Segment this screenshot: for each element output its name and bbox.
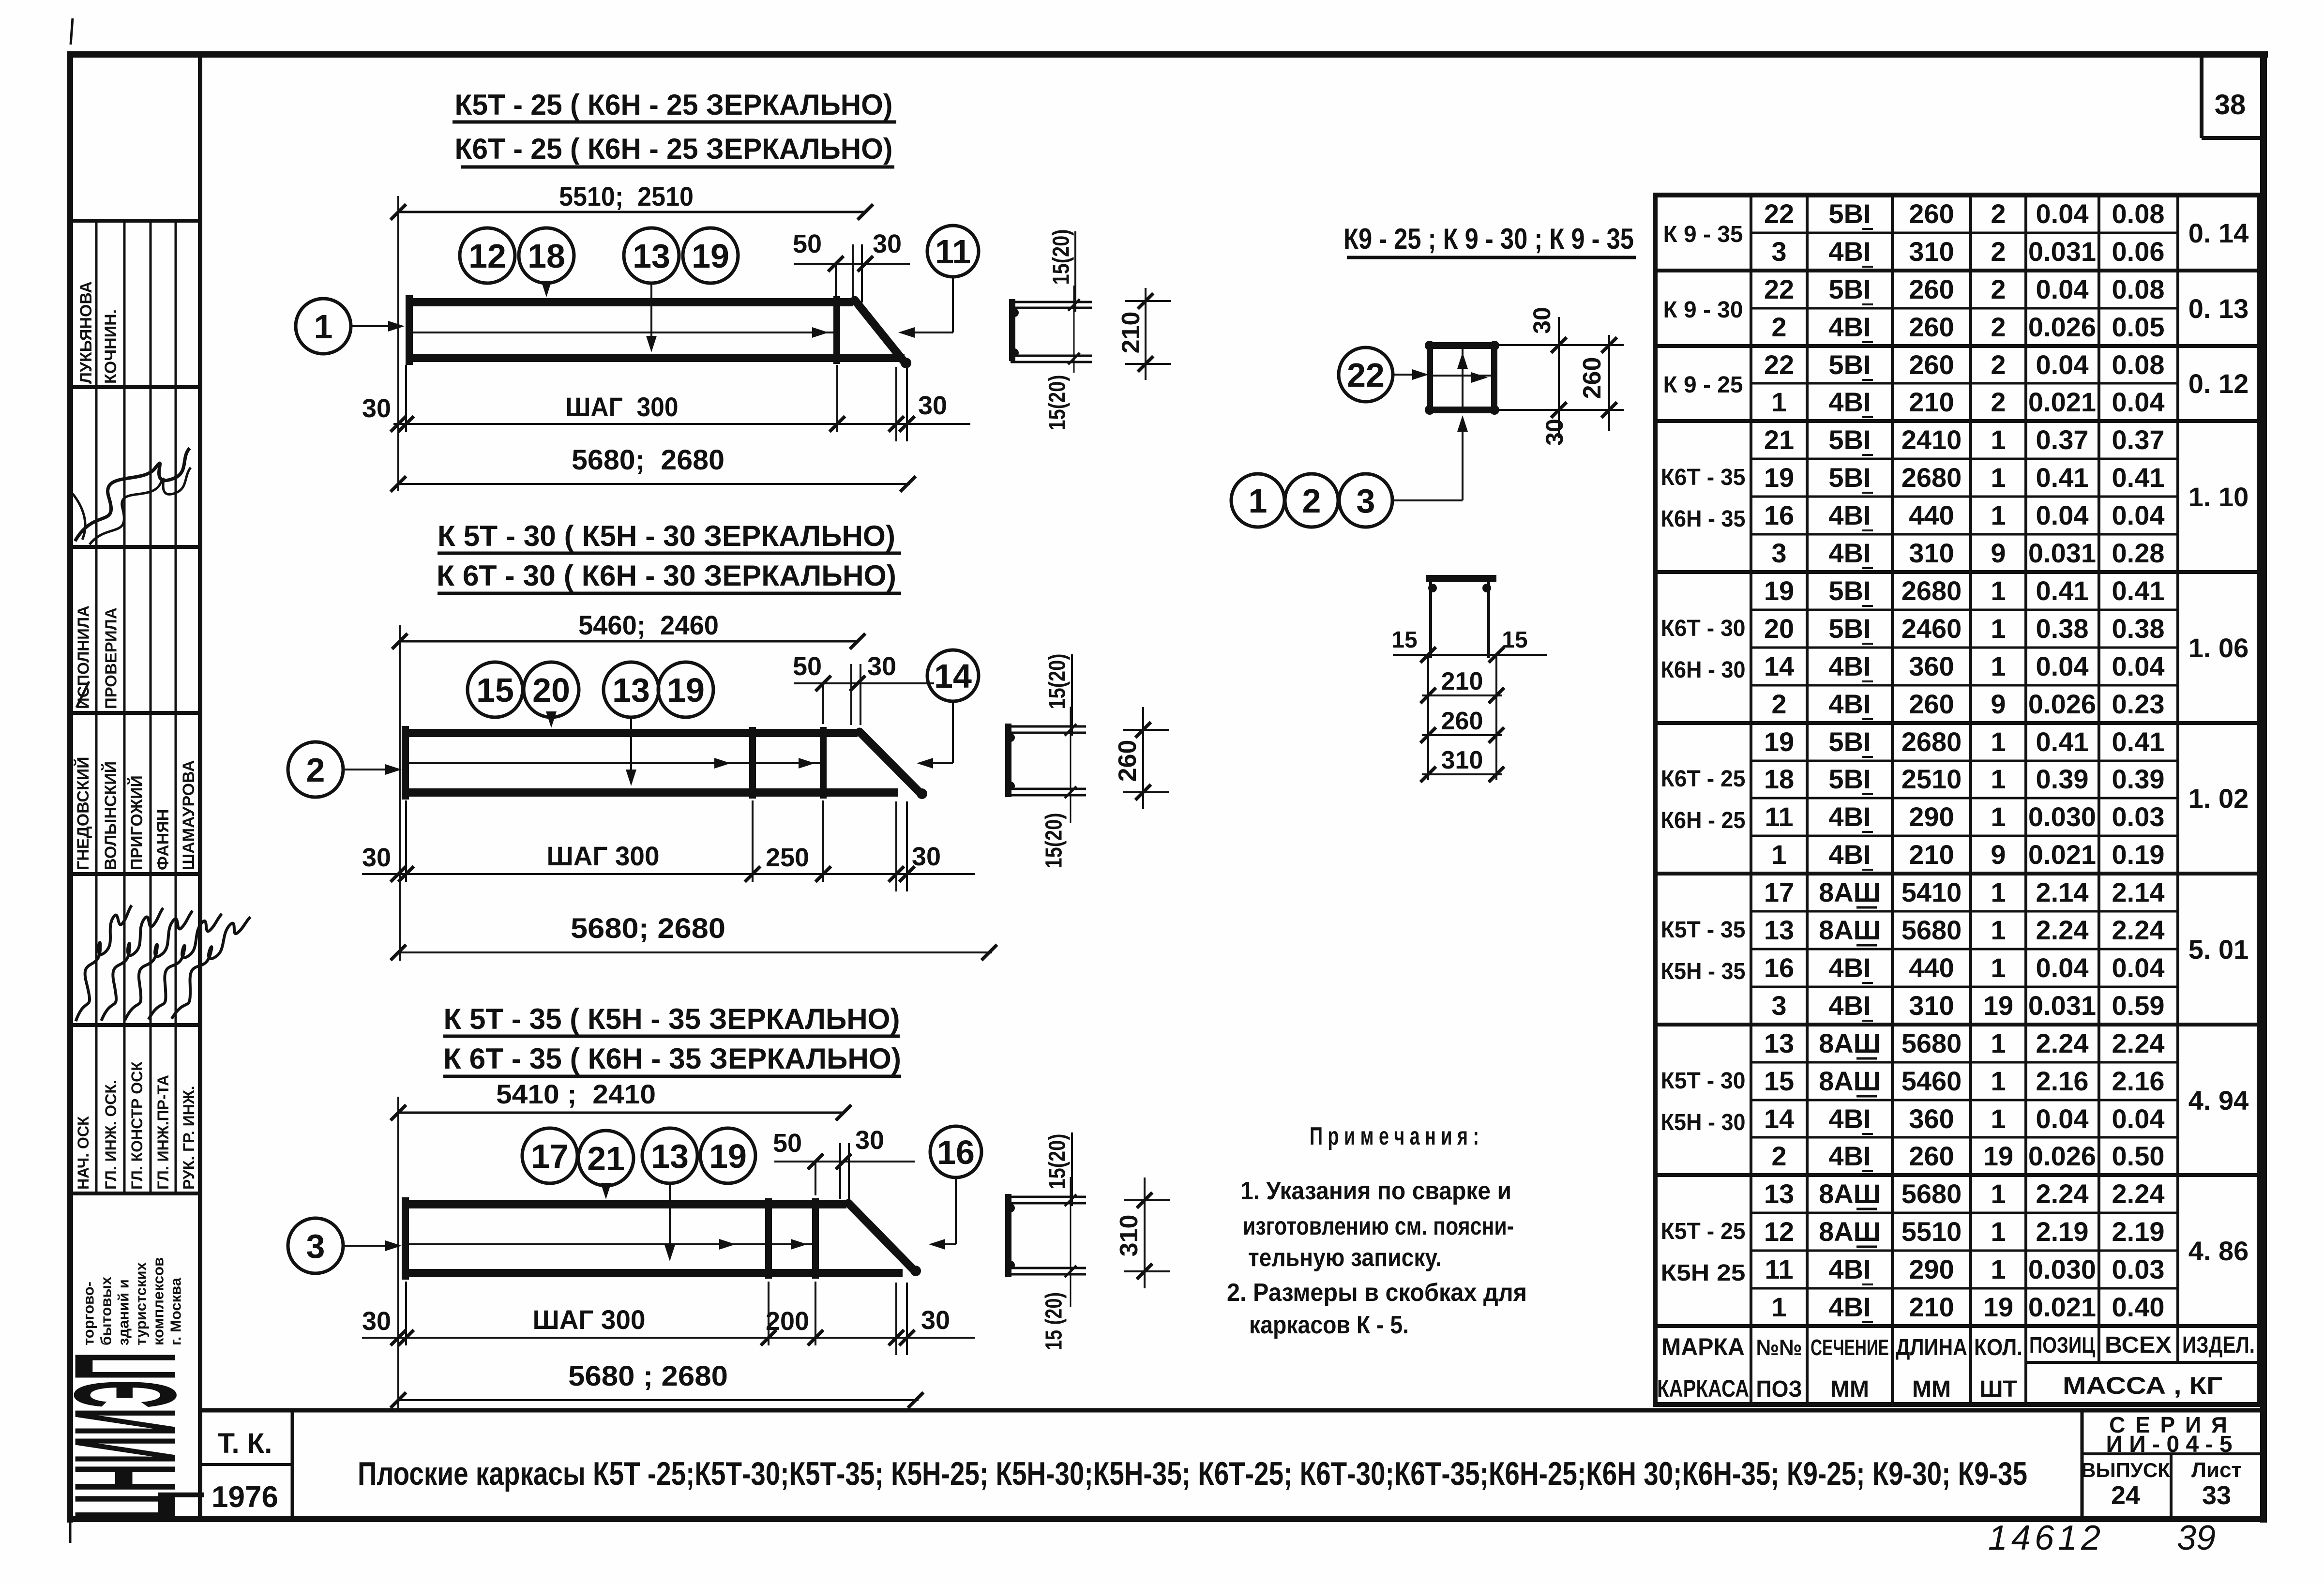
extension line left schematic 3	[397, 1097, 399, 1408]
cross-section 2 bottom bars	[1006, 782, 1086, 795]
svg-text:4ВI: 4ВI	[1828, 1254, 1871, 1284]
svg-text:1. 02: 1. 02	[2188, 783, 2249, 814]
position circle 20	[524, 662, 579, 717]
svg-text:3: 3	[1771, 538, 1786, 568]
position circle 22	[1339, 347, 1393, 402]
svg-text:5ВI: 5ВI	[1828, 462, 1871, 493]
svg-text:0.04: 0.04	[2112, 651, 2165, 681]
svg-text:1: 1	[1991, 462, 2006, 493]
svg-text:1: 1	[314, 308, 333, 346]
svg-text:4ВI: 4ВI	[1828, 387, 1871, 417]
svg-text:21: 21	[587, 1140, 625, 1177]
svg-text:5510; 2510: 5510; 2510	[559, 181, 694, 211]
svg-text:0.06: 0.06	[2112, 236, 2165, 267]
K9 height dimension 260	[1578, 335, 1617, 431]
svg-text:ФАНЯН: ФАНЯН	[154, 809, 172, 870]
svg-text:ПОЗ: ПОЗ	[1756, 1376, 1802, 1402]
svg-text:0.38: 0.38	[2112, 613, 2165, 644]
svg-text:ШАГ 300: ШАГ 300	[566, 392, 679, 422]
cross-section 1 bottom bars	[1010, 348, 1092, 362]
svg-text:8АШ: 8АШ	[1819, 1028, 1881, 1058]
svg-text:ЛУКЬЯНОВА: ЛУКЬЯНОВА	[77, 281, 95, 384]
svg-text:4ВI: 4ВI	[1828, 689, 1871, 719]
svg-text:15(20): 15(20)	[1045, 654, 1071, 709]
dimension 5460; 2460	[392, 610, 865, 649]
svg-text:1. 10: 1. 10	[2188, 482, 2249, 512]
svg-text:13: 13	[1764, 1178, 1794, 1209]
svg-text:2: 2	[1991, 236, 2006, 267]
svg-text:30: 30	[1541, 419, 1568, 446]
svg-text:16: 16	[1764, 952, 1794, 983]
svg-text:0.28: 0.28	[2112, 538, 2165, 568]
svg-text:5460; 2460: 5460; 2460	[578, 610, 719, 640]
svg-text:1: 1	[1771, 1292, 1786, 1322]
svg-text:5680: 5680	[1901, 1028, 1962, 1058]
svg-text:15: 15	[1502, 627, 1527, 653]
svg-text:МАССА , КГ: МАССА , КГ	[2063, 1372, 2222, 1399]
K9 square cage top bar	[1427, 342, 1497, 349]
svg-text:0.031: 0.031	[2028, 236, 2096, 267]
svg-text:0.41: 0.41	[2112, 462, 2165, 493]
svg-text:2.19: 2.19	[2036, 1216, 2089, 1247]
svg-text:тельную записку.: тельную записку.	[1248, 1244, 1442, 1272]
svg-text:5ВI: 5ВI	[1828, 349, 1871, 380]
svg-text:2. Размеры в скобках для: 2. Размеры в скобках для	[1227, 1279, 1527, 1307]
cage K5T-35 bottom chord bar	[403, 1269, 903, 1277]
svg-text:2.24: 2.24	[2112, 1178, 2165, 1209]
svg-text:5460: 5460	[1901, 1066, 1962, 1096]
table block К6Т - 30 / К6Н - 30	[1661, 575, 2249, 719]
svg-text:4ВI: 4ВI	[1828, 538, 1871, 568]
svg-text:12: 12	[468, 237, 506, 275]
svg-text:2: 2	[1991, 198, 2006, 229]
svg-text:0.030: 0.030	[2028, 801, 2096, 832]
svg-text:ИСПОЛНИЛА: ИСПОЛНИЛА	[75, 605, 92, 709]
svg-text:30: 30	[362, 394, 391, 423]
table block К5Т - 35 / К5Н - 35	[1661, 877, 2249, 1021]
svg-text:1: 1	[1991, 877, 2006, 907]
cage K5T-35 middle rod wire	[409, 1239, 812, 1250]
svg-text:0.03: 0.03	[2112, 801, 2165, 832]
cage K5T-25 right vertical bar	[833, 296, 840, 364]
svg-text:4ВI: 4ВI	[1828, 801, 1871, 832]
position circle 1	[296, 299, 351, 354]
svg-text:0.026: 0.026	[2028, 689, 2096, 719]
svg-text:ЦНИИЭП: ЦНИИЭП	[44, 1352, 206, 1521]
leader wire circle 13 (schem 2)	[626, 717, 636, 786]
T.K. box	[198, 1410, 292, 1520]
position circle 13	[624, 228, 679, 283]
svg-text:1: 1	[1771, 387, 1786, 417]
svg-text:0.37: 0.37	[2112, 424, 2165, 455]
svg-text:0. 14: 0. 14	[2188, 218, 2249, 248]
svg-text:260: 260	[1909, 689, 1954, 719]
svg-text:1: 1	[1991, 424, 2006, 455]
position circle 12	[460, 228, 515, 283]
table block К5Т - 30 / К5Н - 30	[1661, 1028, 2249, 1171]
svg-text:ИЗДЕЛ.: ИЗДЕЛ.	[2182, 1332, 2255, 1358]
svg-text:14: 14	[1764, 1103, 1794, 1134]
svg-text:2680: 2680	[1901, 462, 1962, 493]
svg-text:4ВI: 4ВI	[1828, 1141, 1871, 1171]
svg-text:30: 30	[921, 1306, 950, 1335]
svg-text:5. 01: 5. 01	[2188, 934, 2249, 965]
svg-text:К5Т - 25: К5Т - 25	[1661, 1219, 1746, 1244]
cage K5T-30 intermediate bar	[749, 727, 756, 799]
leader wire circle 13	[646, 283, 657, 352]
svg-text:1: 1	[1991, 1103, 2006, 1134]
schematic K5T-35 title line 2	[443, 1042, 901, 1076]
svg-text:2: 2	[1991, 349, 2006, 380]
svg-text:0.39: 0.39	[2036, 764, 2089, 794]
svg-text:8АШ: 8АШ	[1819, 915, 1881, 945]
svg-text:19: 19	[1983, 1141, 2013, 1171]
svg-text:4ВI: 4ВI	[1828, 651, 1871, 681]
svg-text:2680: 2680	[1901, 575, 1962, 606]
svg-text:22: 22	[1347, 356, 1385, 394]
svg-text:0. 12: 0. 12	[2188, 368, 2249, 399]
svg-text:К6Т - 30: К6Т - 30	[1661, 616, 1746, 641]
svg-text:0.04: 0.04	[2112, 952, 2165, 983]
cage K5T-35 left end bar	[402, 1197, 409, 1280]
leader wire from circle 11	[898, 277, 953, 338]
svg-text:200: 200	[766, 1307, 809, 1336]
svg-text:1: 1	[1991, 915, 2006, 945]
svg-text:5ВI: 5ВI	[1828, 575, 1871, 606]
leader wire circle 20	[546, 711, 557, 728]
svg-text:310: 310	[1909, 236, 1954, 267]
position circle 3	[288, 1218, 343, 1273]
svg-text:К 9 - 30: К 9 - 30	[1663, 297, 1743, 323]
sidebar institute text block	[80, 1257, 184, 1345]
svg-text:2.24: 2.24	[2112, 1028, 2165, 1058]
svg-text:0.04: 0.04	[2112, 1103, 2165, 1134]
svg-text:5510: 5510	[1901, 1216, 1962, 1247]
svg-text:0.40: 0.40	[2112, 1292, 2165, 1322]
position circle 14	[927, 650, 979, 701]
cage K5T-30 middle rod wire	[409, 758, 820, 769]
svg-text:290: 290	[1909, 1254, 1954, 1284]
svg-text:каркасов К - 5.: каркасов К - 5.	[1249, 1311, 1409, 1339]
svg-text:П р и м е ч а н и я :: П р и м е ч а н и я :	[1310, 1122, 1479, 1150]
dimension 5680; 2680 schem 2	[391, 913, 997, 960]
leader wire circle 13 (schem 3)	[664, 1183, 675, 1261]
svg-text:260: 260	[1909, 274, 1954, 304]
svg-text:торгово-: торгово-	[80, 1282, 97, 1345]
position circle 21	[578, 1131, 634, 1186]
svg-text:К6Т - 25 ( К6Н - 25 ЗЕРКАЛЬНО): К6Т - 25 ( К6Н - 25 ЗЕРКАЛЬНО)	[455, 133, 893, 165]
position circle 1 (K9)	[1231, 474, 1284, 527]
svg-text:4ВI: 4ВI	[1828, 500, 1871, 530]
svg-text:0.41: 0.41	[2036, 726, 2089, 757]
svg-text:38: 38	[2215, 89, 2246, 121]
svg-text:3: 3	[1771, 236, 1786, 267]
schematic K5T-35 title line 1	[443, 1003, 900, 1036]
svg-text:К6Н - 30: К6Н - 30	[1661, 657, 1746, 683]
svg-text:4. 86: 4. 86	[2188, 1236, 2249, 1266]
svg-text:К 5Т - 30 ( К5Н - 30 ЗЕРКАЛЬНО: К 5Т - 30 ( К5Н - 30 ЗЕРКАЛЬНО)	[438, 520, 895, 552]
position circle 17	[522, 1128, 577, 1183]
cage K5T-30 diagonal bar	[860, 732, 927, 799]
svg-text:2.19: 2.19	[2112, 1216, 2165, 1247]
cage K5T-25 middle rod wire	[412, 327, 833, 338]
K9 square inner wires	[1433, 345, 1492, 410]
svg-text:0.38: 0.38	[2036, 613, 2089, 644]
svg-text:0.08: 0.08	[2112, 198, 2165, 229]
schematic K5T-30 title line 2	[437, 559, 901, 593]
svg-text:2.24: 2.24	[2036, 1178, 2089, 1209]
svg-text:5680; 2680: 5680; 2680	[572, 444, 724, 476]
svg-text:15(20): 15(20)	[1041, 813, 1067, 869]
svg-text:11: 11	[1765, 1254, 1793, 1284]
cross-section 3 height dimension 310	[1115, 1177, 1170, 1288]
svg-text:0.59: 0.59	[2112, 990, 2165, 1021]
svg-text:КОЧНИН.: КОЧНИН.	[102, 309, 120, 384]
svg-text:2: 2	[1771, 1141, 1786, 1171]
svg-text:2.16: 2.16	[2036, 1066, 2089, 1096]
svg-text:К6Т - 25: К6Т - 25	[1661, 766, 1746, 792]
dimension 5410; 2410	[391, 1079, 851, 1120]
svg-text:зданий и: зданий и	[115, 1279, 132, 1345]
svg-text:13: 13	[633, 237, 670, 275]
leader wire from circle 16	[929, 1177, 956, 1250]
svg-text:К 6Т - 35 ( К6Н - 35 ЗЕРКАЛЬНО: К 6Т - 35 ( К6Н - 35 ЗЕРКАЛЬНО)	[443, 1042, 901, 1075]
svg-text:1: 1	[1771, 839, 1786, 870]
svg-text:ВОЛЫНСКИЙ: ВОЛЫНСКИЙ	[101, 761, 120, 870]
svg-text:0.50: 0.50	[2112, 1141, 2165, 1171]
svg-text:0.04: 0.04	[2036, 1103, 2089, 1134]
svg-text:0.04: 0.04	[2036, 349, 2089, 380]
svg-text:8АШ: 8АШ	[1819, 1178, 1881, 1209]
svg-text:ПРОВЕРИЛА: ПРОВЕРИЛА	[102, 607, 120, 709]
leader wire from circle 22	[1393, 369, 1429, 380]
K9 square cage left bar	[1427, 342, 1433, 413]
svg-text:К5Н - 35: К5Н - 35	[1661, 959, 1746, 984]
sidebar signature block 2	[64, 906, 251, 1026]
table block К6Т - 25 / К6Н - 25	[1661, 726, 2249, 870]
table header СЕЧЕНИЕ ММ	[1811, 1335, 1889, 1402]
svg-text:К 6Т - 30 ( К6Н - 30 ЗЕРКАЛЬНО: К 6Т - 30 ( К6Н - 30 ЗЕРКАЛЬНО)	[437, 559, 896, 592]
svg-text:20: 20	[532, 671, 570, 709]
svg-text:комплексов: комплексов	[150, 1257, 167, 1345]
leader wire circle 18	[541, 281, 552, 297]
svg-text:1: 1	[1991, 1066, 2006, 1096]
svg-text:3: 3	[1357, 482, 1375, 520]
svg-text:0.021: 0.021	[2028, 1292, 2096, 1322]
table header ДЛИНА ММ	[1896, 1335, 1967, 1402]
svg-text:К5Т - 30: К5Т - 30	[1661, 1068, 1746, 1094]
svg-text:1: 1	[1991, 1028, 2006, 1058]
dimension 50 / 30 top right	[793, 229, 910, 302]
svg-text:19: 19	[1983, 990, 2013, 1021]
position circle 19 (schem 2)	[658, 662, 713, 717]
position circle 19 (schem 3)	[700, 1128, 755, 1183]
svg-text:1: 1	[1991, 500, 2006, 530]
svg-text:К5Т - 35: К5Т - 35	[1661, 917, 1746, 943]
svg-text:310: 310	[1909, 990, 1954, 1021]
svg-text:260: 260	[1441, 707, 1483, 735]
svg-text:ГЛ. ИНЖ. ОСК.: ГЛ. ИНЖ. ОСК.	[102, 1080, 120, 1190]
svg-text:Лист: Лист	[2191, 1458, 2242, 1482]
svg-text:8АШ: 8АШ	[1819, 1066, 1881, 1096]
schematic K5T-30 title line 1	[438, 520, 901, 553]
extension line left schematic 2	[399, 625, 401, 961]
K9 square corner nodes	[1425, 341, 1499, 415]
svg-text:ШАГ 300: ШАГ 300	[547, 841, 660, 871]
svg-text:9: 9	[1991, 689, 2006, 719]
cross-section 3 cover 15(20) top	[1045, 1132, 1072, 1206]
cage K5T-25 top chord bar	[406, 298, 853, 306]
svg-text:5ВI: 5ВI	[1828, 274, 1871, 304]
svg-text:ШАГ 300: ШАГ 300	[533, 1304, 646, 1335]
sidebar signature block 1	[73, 448, 191, 544]
svg-text:0.021: 0.021	[2028, 839, 2096, 870]
svg-text:К5Н 25: К5Н 25	[1661, 1260, 1746, 1286]
svg-text:2: 2	[1771, 312, 1786, 342]
dimension 5510; 2510	[391, 181, 873, 220]
table block К6Т - 35 / К6Н - 35	[1661, 424, 2249, 568]
svg-text:4ВI: 4ВI	[1828, 236, 1871, 267]
leader wire from circle 1	[351, 321, 405, 332]
svg-text:5680: 5680	[1901, 1178, 1962, 1209]
svg-text:260: 260	[1909, 198, 1954, 229]
svg-text:21: 21	[1764, 424, 1794, 455]
svg-text:0.026: 0.026	[2028, 1141, 2096, 1171]
svg-text:5ВI: 5ВI	[1828, 424, 1871, 455]
svg-text:19: 19	[1764, 462, 1794, 493]
svg-text:ШАМАУРОВА: ШАМАУРОВА	[180, 760, 198, 870]
svg-text:260: 260	[1909, 1141, 1954, 1171]
svg-text:9: 9	[1991, 839, 2006, 870]
table block К 9 - 35	[1663, 198, 2249, 267]
svg-text:К6Н - 35: К6Н - 35	[1661, 506, 1746, 532]
dimension ШАГ 300 row	[362, 365, 970, 441]
svg-text:ВСЕХ: ВСЕХ	[2105, 1332, 2172, 1358]
cross-section 2 axis wire	[1065, 707, 1076, 823]
leader wire circle 21	[601, 1183, 611, 1199]
svg-text:Т. К.: Т. К.	[218, 1428, 272, 1459]
svg-text:2510: 2510	[1901, 764, 1962, 794]
svg-text:КОЛ.: КОЛ.	[1974, 1335, 2022, 1360]
svg-text:1. 06: 1. 06	[2188, 633, 2249, 663]
cage K5T-35 right vertical bar	[812, 1198, 819, 1279]
sidebar slash mark	[76, 681, 89, 708]
svg-text:22: 22	[1764, 198, 1794, 229]
position circle 19	[683, 228, 738, 283]
svg-text:17: 17	[531, 1137, 569, 1175]
cage K5T-25 bottom chord bar	[406, 354, 905, 362]
cage K5T-30 left end bar	[402, 726, 409, 800]
leader wire from circle 14	[917, 701, 953, 769]
svg-text:2: 2	[1991, 312, 2006, 342]
svg-text:0.021: 0.021	[2028, 387, 2096, 417]
position circle 11	[927, 226, 979, 277]
svg-text:4. 94: 4. 94	[2188, 1085, 2249, 1116]
svg-text:0.41: 0.41	[2112, 726, 2165, 757]
leader wire from circle 2	[343, 764, 402, 775]
svg-text:33: 33	[2202, 1481, 2231, 1510]
sidebar stamp grid	[67, 221, 201, 1193]
svg-text:0.41: 0.41	[2112, 575, 2165, 606]
svg-text:11: 11	[935, 233, 971, 271]
page number box 38	[2202, 54, 2264, 138]
svg-text:2: 2	[1771, 689, 1786, 719]
table block К 9 - 30	[1663, 274, 2249, 342]
svg-text:МАРКА: МАРКА	[1661, 1333, 1745, 1360]
leader wire from circles 1-3	[1392, 415, 1468, 500]
svg-text:0.08: 0.08	[2112, 274, 2165, 304]
position circle 3 (K9)	[1339, 474, 1392, 527]
svg-text:13: 13	[612, 671, 650, 709]
cross-section 1 cover 15(20) top	[1049, 229, 1076, 312]
table block К 9 - 25	[1663, 349, 2249, 417]
svg-text:4ВI: 4ВI	[1828, 1103, 1871, 1134]
svg-text:НАЧ. ОСК: НАЧ. ОСК	[75, 1116, 92, 1190]
svg-text:50: 50	[773, 1129, 802, 1158]
svg-text:0.39: 0.39	[2112, 764, 2165, 794]
svg-text:2.14: 2.14	[2112, 877, 2165, 907]
svg-text:12: 12	[1764, 1216, 1794, 1247]
svg-text:0.23: 0.23	[2112, 689, 2165, 719]
cross-section 2 cover 15(20) top	[1045, 654, 1072, 736]
dimension 5680; 2680 schem 3	[391, 1360, 923, 1408]
svg-text:5ВI: 5ВI	[1828, 198, 1871, 229]
K9 square cage bottom bar	[1427, 407, 1497, 413]
svg-text:210: 210	[1909, 1292, 1954, 1322]
K9 vertical section top bar	[1426, 575, 1496, 582]
K9 cover dimension 30 top	[1497, 307, 1624, 446]
cross-section 3 bottom bars	[1006, 1261, 1086, 1274]
svg-text:1: 1	[1991, 801, 2006, 832]
svg-text:ММ: ММ	[1830, 1376, 1869, 1402]
svg-text:0.41: 0.41	[2036, 575, 2089, 606]
svg-text:2: 2	[306, 751, 325, 789]
cross-section 2 top bars	[1006, 726, 1086, 742]
svg-text:5680; 2680: 5680; 2680	[571, 913, 725, 944]
dimension 50 / 30 top right schem 3	[773, 1126, 915, 1199]
svg-text:1: 1	[1991, 651, 2006, 681]
svg-text:0.04: 0.04	[2036, 952, 2089, 983]
svg-text:2.14: 2.14	[2036, 877, 2089, 907]
svg-text:И И - 0 4 - 5: И И - 0 4 - 5	[2106, 1432, 2232, 1457]
svg-text:15 (20): 15 (20)	[1041, 1292, 1067, 1350]
svg-text:15: 15	[476, 671, 514, 709]
svg-text:ПРИГОЖИЙ: ПРИГОЖИЙ	[127, 775, 146, 870]
svg-text:ДЛИНА: ДЛИНА	[1896, 1335, 1967, 1360]
svg-text:Плоские каркасы К5Т -25;К5Т-30: Плоские каркасы К5Т -25;К5Т-30;К5Т-35; К…	[358, 1455, 2027, 1492]
svg-text:440: 440	[1909, 500, 1954, 530]
svg-text:ММ: ММ	[1912, 1376, 1951, 1402]
svg-text:0.031: 0.031	[2028, 538, 2096, 568]
svg-text:30: 30	[912, 842, 941, 871]
dimension 50 / 30 top right schem 2	[793, 652, 934, 725]
svg-text:0.031: 0.031	[2028, 990, 2096, 1021]
svg-text:14: 14	[934, 657, 972, 695]
svg-text:0. 13: 0. 13	[2188, 293, 2249, 324]
svg-text:30: 30	[362, 843, 391, 872]
dimension 5680; 2680	[391, 444, 916, 492]
svg-text:210: 210	[1441, 667, 1483, 695]
СЕРИЯ box	[2081, 1410, 2264, 1520]
schematic K9 title	[1343, 223, 1636, 257]
svg-text:0.19: 0.19	[2112, 839, 2165, 870]
svg-text:КАРКАСА: КАРКАСА	[1657, 1375, 1749, 1402]
cross-section 1 left bar	[1009, 299, 1015, 361]
svg-text:2.24: 2.24	[2036, 915, 2089, 945]
cage K5T-35 intermediate bar	[765, 1198, 772, 1279]
svg-text:14612: 14612	[1988, 1519, 2104, 1557]
svg-text:260: 260	[1909, 349, 1954, 380]
